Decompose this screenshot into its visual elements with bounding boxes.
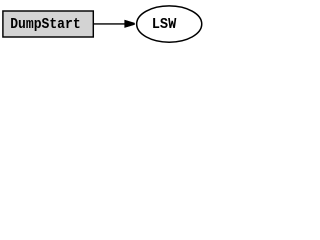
node DumpStart (filled box) bbox=[3, 11, 93, 37]
svg-text:DumpStart: DumpStart bbox=[10, 15, 81, 33]
edge arrowhead bbox=[125, 20, 135, 27]
node LSW (ellipse) bbox=[137, 6, 202, 42]
wire edge DumpStart->LSW shaft bbox=[94, 23, 126, 25]
background bbox=[0, 0, 205, 48]
svg-text:LSW: LSW bbox=[152, 15, 177, 33]
